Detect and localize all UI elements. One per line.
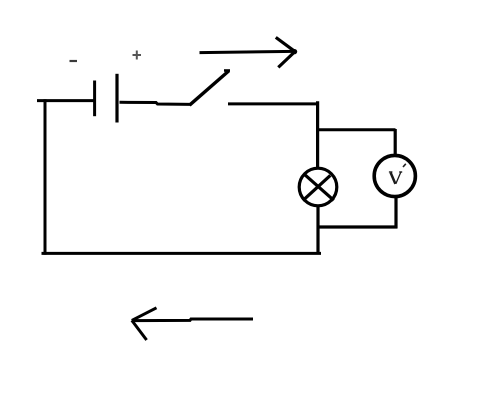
voltmeter U1 label V [389,172,402,184]
current arrow top tip node [292,49,297,54]
wire battery to switch [120,102,191,104]
battery B1 positive plate [115,74,118,123]
voltmeter tick mark [403,164,406,167]
wire voltmeter top vertical [394,129,397,156]
switch S1 lever [190,71,229,105]
current arrow top head lower barb [278,52,294,67]
wire voltmeter bottom vertical [394,198,397,229]
wire left vertical [44,99,47,255]
lamp L1 cross stroke 2 [303,175,331,200]
current arrow bottom lower barb [132,320,147,340]
wire branch bottom horizontal [317,225,398,228]
wire right vertical to lamp [316,101,319,168]
current arrow top head upper barb [276,37,295,51]
wire switch right contact [228,102,317,105]
battery minus label [70,60,78,62]
current arrow top shaft [200,51,294,52]
current arrow bottom shaft [133,319,254,321]
wire top-left horizontal [37,99,94,102]
lamp L1 cross stroke 1 [304,174,334,200]
battery B1 negative plate [93,81,96,117]
lamp L1 circle [299,168,337,206]
voltmeter U1 circle [374,155,415,196]
wire branch top to voltmeter [316,128,396,131]
battery plus label [133,51,142,60]
switch S1 lever tip cap [224,69,230,72]
wire lamp bottom vertical [316,206,319,255]
current arrow bottom upper barb [132,308,157,321]
wire bottom horizontal [42,252,322,255]
